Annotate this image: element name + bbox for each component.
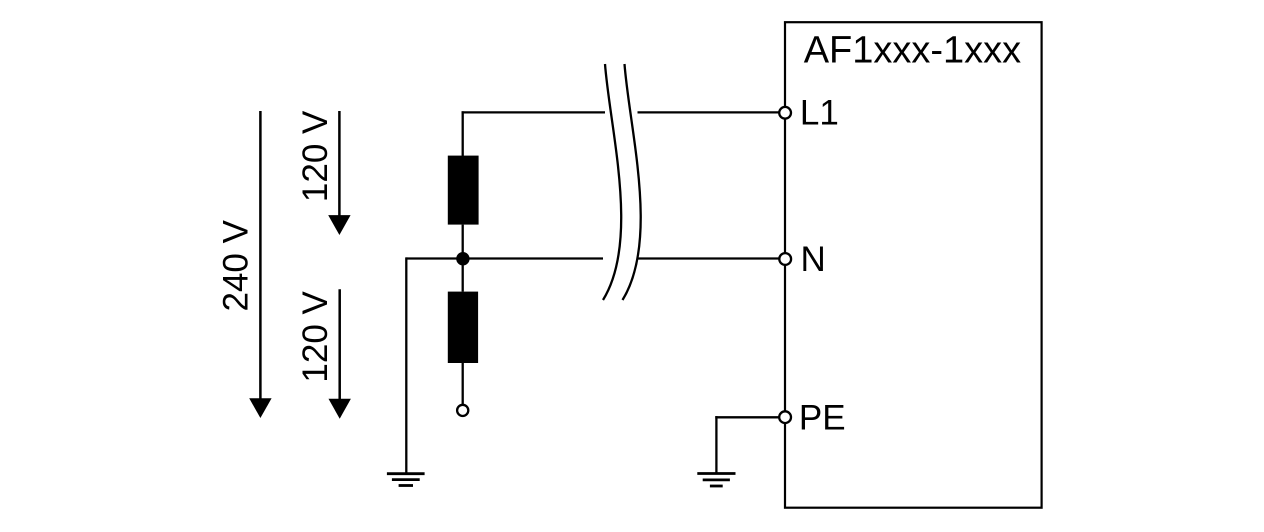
ground symbol PE (earth) <box>697 474 735 487</box>
wire PE vertical down to ground <box>715 416 717 473</box>
wire winding upper bottom to node <box>462 225 464 259</box>
wire from L1 corner down to winding top <box>462 111 464 156</box>
terminal L1 (open circle) <box>779 107 791 119</box>
wire winding lower bottom to open terminal <box>462 363 464 404</box>
wire N horizontal from node to break (segment) <box>406 257 603 259</box>
ground symbol left (earth) <box>387 474 425 486</box>
wire node down to winding lower <box>462 259 464 292</box>
device box AF1xxx-1xxx <box>785 22 1042 508</box>
wire L1 top horizontal (left segment) <box>462 111 605 113</box>
arrow 240V <box>249 111 271 418</box>
svg-text:L1: L1 <box>800 94 839 133</box>
terminal N (open circle) <box>779 253 791 265</box>
arrow 120V lower <box>329 289 351 419</box>
wire neutral branch down to ground (vertical) <box>405 257 407 473</box>
cable break white band <box>603 64 641 300</box>
winding lower (transformer secondary half 2) <box>448 292 478 363</box>
terminal PE (open circle) <box>779 411 791 423</box>
cable break curve left <box>603 64 621 300</box>
svg-text:120 V: 120 V <box>296 110 335 202</box>
wire L1 top horizontal (right segment) <box>638 111 780 113</box>
node center tap (junction dot) <box>456 252 469 265</box>
cable break curve right <box>623 64 641 300</box>
svg-text:N: N <box>801 240 826 279</box>
open terminal circle below lower winding <box>457 405 468 416</box>
svg-text:120 V: 120 V <box>296 290 335 382</box>
arrow 120V upper <box>328 111 350 235</box>
wire N horizontal (right segment) <box>637 257 780 259</box>
winding upper (transformer secondary half 1) <box>448 156 479 225</box>
svg-text:PE: PE <box>799 398 846 437</box>
wire PE horizontal <box>715 416 779 418</box>
svg-text:AF1xxx-1xxx: AF1xxx-1xxx <box>804 29 1021 71</box>
svg-text:240 V: 240 V <box>216 219 255 311</box>
